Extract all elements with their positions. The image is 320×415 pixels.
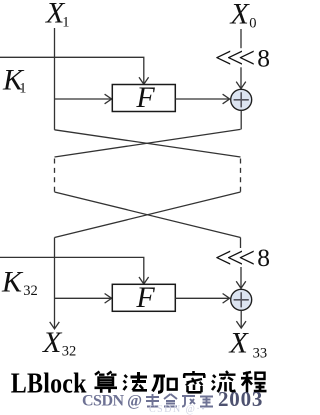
XOR adder circle top xyxy=(231,89,252,110)
arrowhead into F2 top xyxy=(139,277,149,284)
svg-text:8: 8 xyxy=(257,243,270,272)
plus sign of XOR bottom xyxy=(234,292,249,307)
svg-text:X: X xyxy=(42,326,63,359)
wire F2 output to XOR2 xyxy=(175,297,229,299)
caption char LIU xyxy=(212,371,236,392)
XOR adder circle bottom xyxy=(231,289,252,310)
watermark CJK glyph 3 xyxy=(182,396,195,407)
F function box U1 xyxy=(112,85,175,112)
caption char JIA xyxy=(153,376,177,392)
caption char CHENG xyxy=(241,372,267,393)
plus sign of XOR top xyxy=(234,92,249,107)
watermark CJK glyph 4 xyxy=(200,397,213,407)
caption CJK: drawn strokes xyxy=(95,371,267,393)
wire rot8 to XOR2 xyxy=(240,267,242,288)
wire crossover1 left-to-right xyxy=(55,130,241,157)
node K1 xyxy=(2,63,26,96)
node X0 xyxy=(230,0,257,31)
node K32 xyxy=(1,266,38,300)
svg-text:<<<: <<< xyxy=(215,42,254,75)
svg-text:2003: 2003 xyxy=(218,387,263,411)
svg-text:X: X xyxy=(230,0,251,30)
wire right vertical above rot8 bottom xyxy=(240,238,242,249)
arrowhead into F1 left xyxy=(105,94,112,104)
arrowhead into XOR2 left xyxy=(223,294,230,304)
watermark CSDN @ (white emboss layer) xyxy=(83,388,264,412)
arrowhead to X33 xyxy=(236,321,246,328)
wire crossover2 right-to-left xyxy=(55,192,241,238)
svg-text:0: 0 xyxy=(249,15,256,31)
wire into F2 left xyxy=(55,297,112,299)
dashed wire left (rounds omitted) xyxy=(54,159,56,193)
svg-text:F: F xyxy=(135,81,155,114)
svg-text:CSDN @: CSDN @ xyxy=(82,393,142,410)
arrowhead to X32 xyxy=(50,322,60,329)
wire XOR2 down to X33 xyxy=(240,310,242,327)
wire rot8 to XOR1 xyxy=(240,67,242,88)
F function box U2 xyxy=(112,284,175,311)
watermark CJK glyph 2 xyxy=(164,394,177,407)
arrowhead into XOR1 top xyxy=(236,82,246,89)
svg-text:CSDN @·•: CSDN @·• xyxy=(149,404,206,415)
wire K1 horizontal with bend into F xyxy=(0,57,144,83)
wire F1 output to XOR1 xyxy=(175,98,229,100)
wire X1 vertical xyxy=(54,28,56,130)
rotation label <<< 8 (top) xyxy=(215,42,270,75)
svg-text:1: 1 xyxy=(19,81,26,97)
wire crossover1 right-to-left xyxy=(55,129,241,157)
node X1 xyxy=(45,0,70,30)
node X33 xyxy=(229,327,268,362)
arrowhead into F2 left xyxy=(105,294,112,304)
caption char SUAN xyxy=(95,372,118,393)
caption char MI xyxy=(184,371,206,392)
caption char FA xyxy=(124,372,148,390)
node X32 xyxy=(42,326,76,359)
svg-text:33: 33 xyxy=(253,345,268,361)
arrowhead into F1 top xyxy=(139,77,149,84)
svg-text:X: X xyxy=(229,327,250,360)
watermark CJK glyph 1 xyxy=(146,394,213,407)
svg-text:1: 1 xyxy=(62,14,69,30)
watermark CSDN @ (gray main layer) xyxy=(82,387,263,411)
svg-text:K: K xyxy=(1,266,24,299)
arrowhead into XOR2 top xyxy=(236,281,246,288)
dashed wire right (rounds omitted) xyxy=(240,159,242,193)
wire crossover2 left-to-right xyxy=(55,192,241,238)
svg-text:LBlock: LBlock xyxy=(11,366,87,399)
svg-text:32: 32 xyxy=(62,343,77,359)
svg-text:8: 8 xyxy=(257,43,270,72)
svg-text:F: F xyxy=(135,281,155,314)
wire XOR1 down xyxy=(240,110,242,129)
rotation label <<< 8 (bottom) xyxy=(215,242,270,275)
svg-text:<<<: <<< xyxy=(215,242,254,275)
wire X0 vertical xyxy=(240,29,242,48)
arrowhead into XOR1 left xyxy=(223,94,230,104)
wire K32 horizontal with bend into F2 xyxy=(0,257,144,283)
wire left vertical to X32 xyxy=(54,238,56,329)
svg-text:32: 32 xyxy=(23,283,38,299)
wire X1 into F1 xyxy=(55,98,112,100)
